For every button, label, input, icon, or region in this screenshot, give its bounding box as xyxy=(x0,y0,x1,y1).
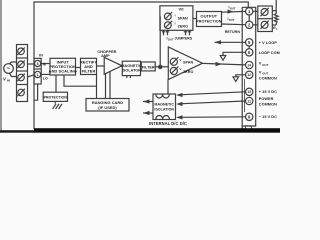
node A (signal junction) xyxy=(159,65,162,68)
module enclosure outline xyxy=(34,2,248,129)
svg-text:PROTECTION: PROTECTION xyxy=(44,95,68,99)
screw terminal S3 xyxy=(18,74,25,81)
svg-text:MAGNETIC: MAGNETIC xyxy=(121,64,141,68)
block: ranging card xyxy=(86,99,129,112)
output screw terminal block xyxy=(258,6,273,32)
block: V/I converter xyxy=(160,6,193,31)
wire terminal 1 to S5 xyxy=(253,10,258,12)
arrowhead IOUT right xyxy=(228,10,234,14)
svg-text:SPAN: SPAN xyxy=(183,61,193,65)
potentiometer I SPAN xyxy=(164,13,171,20)
transformer winding bottom xyxy=(156,116,170,120)
wire IOUT RETURN from terminal 2 xyxy=(222,23,246,26)
wire terminal 1 LO to input block xyxy=(41,73,50,75)
svg-text:AND SCALING: AND SCALING xyxy=(49,68,77,73)
svg-text:L: L xyxy=(276,27,278,31)
svg-text:~: ~ xyxy=(7,66,11,73)
svg-text:COMMON: COMMON xyxy=(259,76,277,80)
svg-text:OUT: OUT xyxy=(168,37,174,41)
load loop wire bottom xyxy=(272,24,276,26)
wire chopper to ranging card pin 1 xyxy=(105,74,107,99)
svg-text:SPAN: SPAN xyxy=(178,16,188,20)
svg-text:LOOP COM: LOOP COM xyxy=(259,51,280,55)
op-amp output A2 xyxy=(168,47,202,80)
wire VIN- to S3 xyxy=(9,73,17,77)
svg-text:ZERO: ZERO xyxy=(178,25,189,29)
terminal strip (right) xyxy=(242,7,256,129)
svg-text:I: I xyxy=(175,22,176,26)
wire S3 to terminal 1 xyxy=(28,75,35,77)
svg-text:MAGNETIC: MAGNETIC xyxy=(154,103,174,107)
svg-text:FILTER: FILTER xyxy=(142,65,155,69)
wire chopper to magnetic isolator xyxy=(121,65,123,67)
block: protection (input) xyxy=(43,92,67,101)
screw terminal S6 xyxy=(261,21,268,28)
terminal 5 (+V LOOP) xyxy=(246,39,253,46)
potentiometer V SPAN xyxy=(170,58,177,65)
wire terminal 13 +15V to isolation xyxy=(182,92,245,95)
svg-text:ISOLATOR: ISOLATOR xyxy=(122,69,141,73)
svg-text:COMMON: COMMON xyxy=(259,102,277,106)
wire terminal 3 HI to input block xyxy=(41,63,50,65)
wire S2 to terminal 3 xyxy=(28,63,35,65)
wire node A up to V/I converter xyxy=(159,16,161,67)
svg-text:LO: LO xyxy=(43,76,48,80)
wire rectify block to ranging card xyxy=(96,75,98,99)
svg-text:− 15 V DC: − 15 V DC xyxy=(259,115,277,119)
block: output protection xyxy=(197,12,222,27)
wire terminal 9 -15V to isolation xyxy=(182,116,245,119)
svg-text:FILTER: FILTER xyxy=(82,68,96,73)
footnote mark below terminal 9 xyxy=(246,126,252,129)
wire terminal 2 to S6 xyxy=(253,24,258,26)
wire VIN+ to S2 xyxy=(9,62,17,64)
block: magnetic isolator xyxy=(122,61,140,75)
svg-text:ZERO: ZERO xyxy=(183,70,194,74)
screw terminal S1 xyxy=(18,48,25,55)
terminal 13 (+15VDC) xyxy=(246,88,253,95)
block: rectify and filter xyxy=(81,58,97,74)
common symbol (vout common) xyxy=(233,77,239,82)
svg-text:1: 1 xyxy=(37,73,39,77)
transformer winding top xyxy=(156,94,170,98)
svg-text:ISOLATION: ISOLATION xyxy=(154,107,174,111)
svg-text:POWER: POWER xyxy=(259,97,274,101)
wire terminal 11 power common to isolation xyxy=(182,101,245,104)
jumper pins IOUT group 1 xyxy=(163,30,165,35)
arrowhead +15V into isolation xyxy=(176,93,183,97)
svg-text:3: 3 xyxy=(37,62,39,66)
common symbol (loop com) xyxy=(220,56,226,61)
svg-text:IN: IN xyxy=(7,79,10,83)
terminal 1 (IOUT) xyxy=(246,8,253,15)
wire V/I to output protection xyxy=(193,18,197,20)
svg-text:(IF USED): (IF USED) xyxy=(98,105,117,110)
load loop wire top xyxy=(272,0,276,11)
arrowhead amp output right xyxy=(216,62,223,66)
screw terminal S2 xyxy=(18,61,25,68)
wire input block to protection xyxy=(55,75,57,92)
terminal 6 (LOOP COM) xyxy=(246,49,253,56)
screw terminal S4 xyxy=(18,89,25,96)
svg-text:OUT: OUT xyxy=(262,63,268,67)
arrowhead isolation out left 2 xyxy=(143,111,150,115)
svg-text:IN: IN xyxy=(39,53,43,57)
svg-text:INTERNAL D/C D/C: INTERNAL D/C D/C xyxy=(149,121,187,126)
svg-text:+ V LOOP: + V LOOP xyxy=(259,41,277,45)
bottom heavy border xyxy=(0,130,280,133)
wire isolation output left 1 xyxy=(143,101,153,103)
wire input block to rectify block xyxy=(76,67,81,69)
wire rectify to chopper amp xyxy=(97,65,105,67)
wire isolation output left 2 xyxy=(143,112,153,114)
svg-text:JUMPERS: JUMPERS xyxy=(175,36,193,40)
resistor RL xyxy=(274,11,278,25)
svg-text:RETURN: RETURN xyxy=(225,30,241,34)
svg-text:V: V xyxy=(179,67,182,71)
block: filter xyxy=(141,62,155,71)
arrowhead isolation out left 1 xyxy=(143,99,150,103)
svg-text:11: 11 xyxy=(247,99,251,103)
wire IOUT to terminal 1 xyxy=(222,10,246,13)
transformer marks isolator xyxy=(126,76,128,78)
link terminal 5-6 xyxy=(248,46,250,48)
source VIN xyxy=(4,64,14,74)
wire isolator to filter xyxy=(140,66,143,68)
terminal 11 (POWER COMMON) xyxy=(246,97,253,104)
input terminal pair box xyxy=(34,58,41,84)
svg-text:OUT: OUT xyxy=(230,6,236,10)
wire input block bottom to ranging card xyxy=(64,75,97,86)
link terminal 1-2 xyxy=(248,15,250,21)
potentiometer I ZERO xyxy=(164,22,171,29)
svg-text:12: 12 xyxy=(247,73,251,77)
potentiometer V ZERO xyxy=(170,67,177,74)
terminal 3 (IN HI) xyxy=(35,60,41,66)
arrowhead +V loop left xyxy=(215,40,222,44)
svg-text:OUT: OUT xyxy=(229,18,235,22)
wire terminal 6 loop com xyxy=(223,52,245,55)
svg-text:OUT: OUT xyxy=(262,71,268,75)
svg-text:AMP: AMP xyxy=(101,54,110,58)
block: magnetic isolation (dc/dc) xyxy=(153,94,176,120)
terminal 14 (VOUT) xyxy=(246,61,253,68)
figure left border xyxy=(0,0,2,131)
terminal 1 (IN LO) xyxy=(35,71,41,77)
wire terminal 12 vout common xyxy=(236,75,246,77)
svg-text:PROTECTION: PROTECTION xyxy=(196,20,222,24)
svg-text:14: 14 xyxy=(247,63,251,67)
wire filter to output amp xyxy=(155,66,168,68)
wire amp supply to isolation xyxy=(167,80,169,95)
op-amp chopper A1 xyxy=(104,57,122,74)
svg-text:I: I xyxy=(175,13,176,17)
arrowhead power common into isolation xyxy=(176,102,183,106)
input screw terminal block xyxy=(17,45,28,102)
svg-text:V/I: V/I xyxy=(178,7,183,12)
wire amp output to terminal 14 xyxy=(203,63,246,65)
screw terminal S5 xyxy=(261,9,268,16)
wire terminal 5 +V loop xyxy=(215,41,246,43)
terminal 9 (-15VDC) xyxy=(246,113,253,120)
jumper pins IOUT group 2 xyxy=(185,30,187,35)
wire chopper to ranging card pin 2 xyxy=(109,72,111,99)
svg-text:HI: HI xyxy=(43,62,47,66)
wire terminal 1 to module common xyxy=(34,84,38,100)
block: input protection and scaling xyxy=(50,58,76,75)
terminal 2 (IOUT RETURN) xyxy=(246,21,253,28)
terminal 12 (VOUT COMMON) xyxy=(246,71,253,78)
ground (chassis) xyxy=(54,101,56,103)
svg-text:V: V xyxy=(179,58,182,62)
svg-text:OUTPUT: OUTPUT xyxy=(200,13,217,18)
svg-text:13: 13 xyxy=(247,90,251,94)
arrowhead -15V into isolation xyxy=(176,115,183,119)
svg-text:+ 15 V DC: + 15 V DC xyxy=(259,90,277,94)
